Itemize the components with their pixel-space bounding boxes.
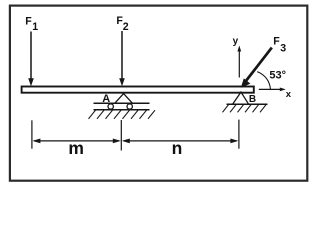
svg-text:2: 2 (123, 21, 129, 33)
svg-text:y: y (233, 36, 239, 47)
svg-text:F: F (273, 36, 280, 48)
svg-text:x: x (286, 89, 292, 100)
svg-text:3: 3 (280, 43, 286, 55)
svg-text:B: B (249, 94, 256, 105)
svg-text:A: A (102, 93, 110, 105)
svg-text:1: 1 (32, 21, 38, 33)
svg-text:n: n (172, 138, 183, 158)
svg-text:F: F (25, 16, 32, 28)
svg-text:53°: 53° (269, 70, 286, 82)
svg-text:m: m (68, 138, 84, 158)
